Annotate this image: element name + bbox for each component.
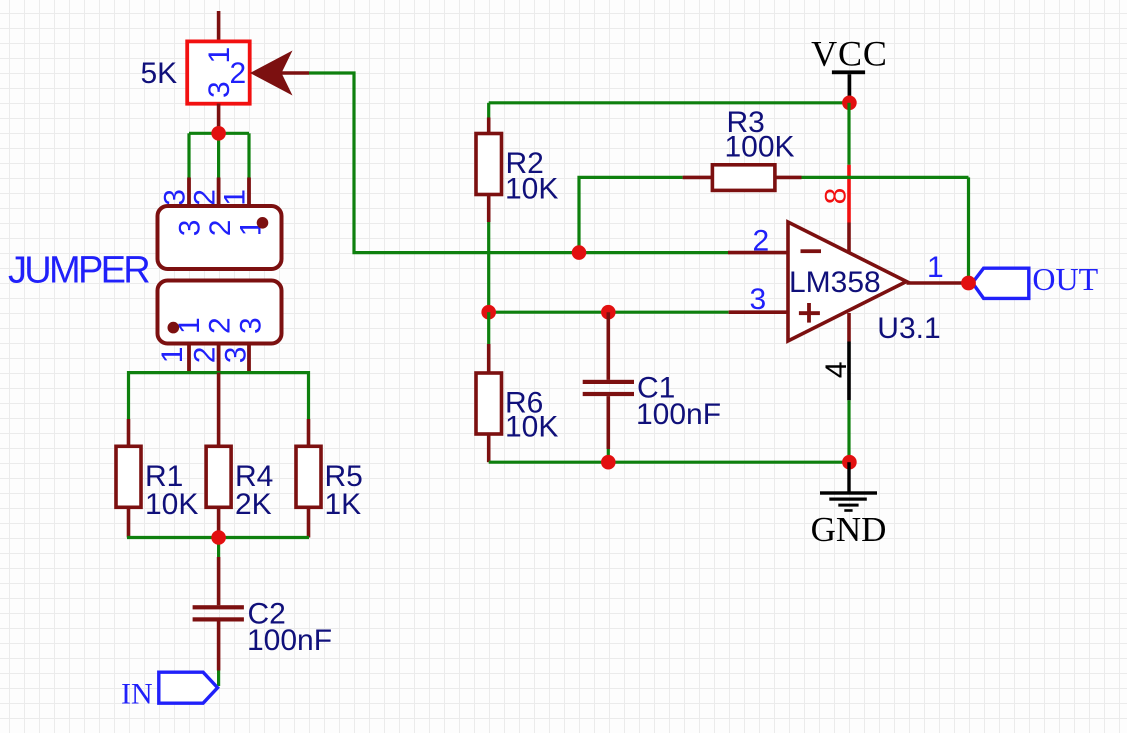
wire ground rail (489, 461, 850, 464)
jumper top pin stub 2 (217, 178, 221, 208)
capacitor C1 bottom pin wire (606, 396, 610, 449)
jumper top pin stub 3 (187, 178, 191, 208)
supply VCC stem (848, 74, 852, 96)
op-amp pin 4 wire black (847, 342, 851, 401)
resistor R6 top pin wire green (487, 312, 490, 344)
svg-text:2: 2 (189, 347, 222, 364)
svg-text:1K: 1K (325, 488, 362, 521)
jumper upper body (158, 206, 282, 269)
svg-text:100nF: 100nF (636, 398, 721, 431)
jumper upper pin1 marker dot (257, 217, 269, 229)
wire output net vertical (967, 177, 970, 283)
svg-text:2: 2 (204, 220, 237, 237)
port IN symbol (159, 672, 218, 703)
resistor R1 bottom pin wire (127, 507, 131, 537)
svg-text:100K: 100K (725, 131, 795, 164)
wire R3 left net (579, 177, 683, 252)
capacitor C2 top pin wire (217, 557, 221, 605)
wire C2 to IN port (217, 671, 220, 687)
capacitor C1 top pin wire (606, 312, 610, 380)
svg-text:4: 4 (820, 361, 853, 378)
wire plus net (489, 311, 729, 314)
capacitor C1 plates (583, 380, 634, 384)
wire VCC rail (489, 101, 850, 104)
resistor R4 top pin wire (217, 373, 221, 447)
node output junction (961, 276, 976, 291)
supply VCC bar (832, 70, 865, 74)
svg-text:1: 1 (927, 251, 944, 284)
resistor R1 body (116, 446, 141, 507)
resistor R4 body (206, 446, 231, 507)
resistor R1 top pin wire (127, 419, 131, 446)
wire to jumper pin 1 (247, 133, 250, 177)
op-amp pin 8 wire red (847, 165, 851, 223)
wire pot to junction (217, 128, 220, 133)
potentiometer wiper arrow (250, 51, 293, 96)
svg-text:3: 3 (235, 317, 268, 334)
resistor R3 body (712, 165, 775, 191)
svg-text:LM358: LM358 (789, 266, 881, 299)
svg-text:10K: 10K (505, 173, 558, 206)
wire R2 to plus net (487, 222, 490, 312)
svg-text:2K: 2K (235, 488, 272, 521)
resistor R5 top pin wire (307, 419, 311, 446)
ground symbol bars (820, 491, 877, 494)
svg-text:2: 2 (753, 224, 770, 257)
potentiometer top pin wire (217, 11, 221, 43)
svg-text:2: 2 (189, 189, 222, 206)
wire junction to C2 green (217, 538, 220, 558)
jumper bottom pin stub 2 (217, 344, 221, 373)
wire C1 to ground rail (607, 449, 610, 462)
node plus net C1 junction (601, 305, 616, 320)
wire to jumper pin 3 (187, 133, 190, 177)
port OUT symbol (972, 268, 1028, 298)
ground symbol stem (847, 462, 850, 491)
svg-text:3: 3 (174, 220, 207, 237)
svg-text:1: 1 (156, 347, 189, 364)
resistor R6 top pin wire (487, 344, 491, 373)
svg-text:3: 3 (203, 81, 236, 98)
potentiometer wiper pin wire (278, 71, 309, 75)
wire VCC junction down to pin 8 (847, 103, 850, 165)
op-amp minus symbol (801, 249, 822, 253)
op-amp pin 8 wire maroon (847, 223, 851, 254)
jumper lower body (158, 281, 282, 344)
svg-text:10K: 10K (145, 488, 198, 521)
op-amp pin 4 wire maroon (847, 313, 851, 342)
wire wiper to inverting input net (309, 73, 728, 253)
capacitor C2 plates (193, 605, 244, 609)
resistor R4 bottom pin wire (217, 507, 221, 531)
svg-text:3: 3 (220, 347, 253, 364)
resistor R6 body (476, 373, 502, 434)
node VCC junction (842, 96, 857, 111)
svg-text:JUMPER: JUMPER (8, 250, 149, 292)
node pot-jumper junction (211, 126, 226, 141)
wire R3 to output net (802, 176, 969, 179)
resistor R3 right pin wire (775, 176, 802, 180)
jumper bottom pin stub 3 (247, 344, 251, 373)
svg-text:8: 8 (819, 188, 852, 205)
capacitor C2 bottom pin wire (217, 622, 221, 671)
potentiometer 5K body (187, 41, 250, 103)
op-amp pin 2 wire (728, 251, 788, 255)
node resistor bottom junction (211, 530, 226, 545)
svg-text:U3.1: U3.1 (877, 312, 940, 345)
svg-text:3: 3 (750, 283, 767, 316)
svg-text:2: 2 (203, 317, 236, 334)
svg-text:VCC: VCC (811, 34, 888, 74)
resistor R6 bottom pin wire (487, 434, 491, 462)
svg-text:5K: 5K (141, 57, 178, 90)
op-amp pin 3 wire (729, 310, 788, 314)
node GND junction (842, 455, 857, 470)
potentiometer pin 3 wire (217, 104, 221, 129)
wire junction horizontal (189, 132, 249, 135)
resistor R2 top pin wire (487, 118, 491, 134)
jumper bottom pin stub 1 (187, 344, 191, 373)
wire pin 4 to ground rail (847, 400, 850, 462)
svg-text:GND: GND (811, 510, 887, 549)
node C1 ground junction (601, 455, 616, 470)
svg-text:3: 3 (158, 189, 191, 206)
node inverting net junction (572, 245, 587, 260)
op-amp pin 1 wire (907, 281, 969, 285)
resistor R3 left pin wire (683, 176, 713, 180)
svg-text:OUT: OUT (1032, 261, 1098, 297)
resistor R5 body (296, 446, 321, 507)
wire VCC stem to rail (848, 96, 851, 103)
resistor R5 bottom pin wire (307, 507, 311, 537)
jumper top pin stub 1 (247, 178, 251, 208)
op-amp U3.1 triangle (788, 222, 907, 341)
resistor R2 body (476, 134, 502, 195)
jumper lower pin1 marker dot (168, 322, 180, 334)
svg-text:10K: 10K (505, 411, 558, 444)
wire to jumper pin 2 (217, 133, 220, 177)
svg-text:100nF: 100nF (247, 624, 332, 657)
resistor R2 bottom pin wire (487, 195, 491, 223)
wire jumper net to resistors (129, 373, 309, 419)
svg-text:IN: IN (121, 678, 153, 711)
wire VCC rail to R2 (487, 103, 490, 118)
op-amp plus symbol (799, 311, 820, 315)
node plus net left junction (481, 305, 496, 320)
wire resistor bottom net (127, 536, 309, 539)
svg-text:1: 1 (219, 189, 252, 206)
